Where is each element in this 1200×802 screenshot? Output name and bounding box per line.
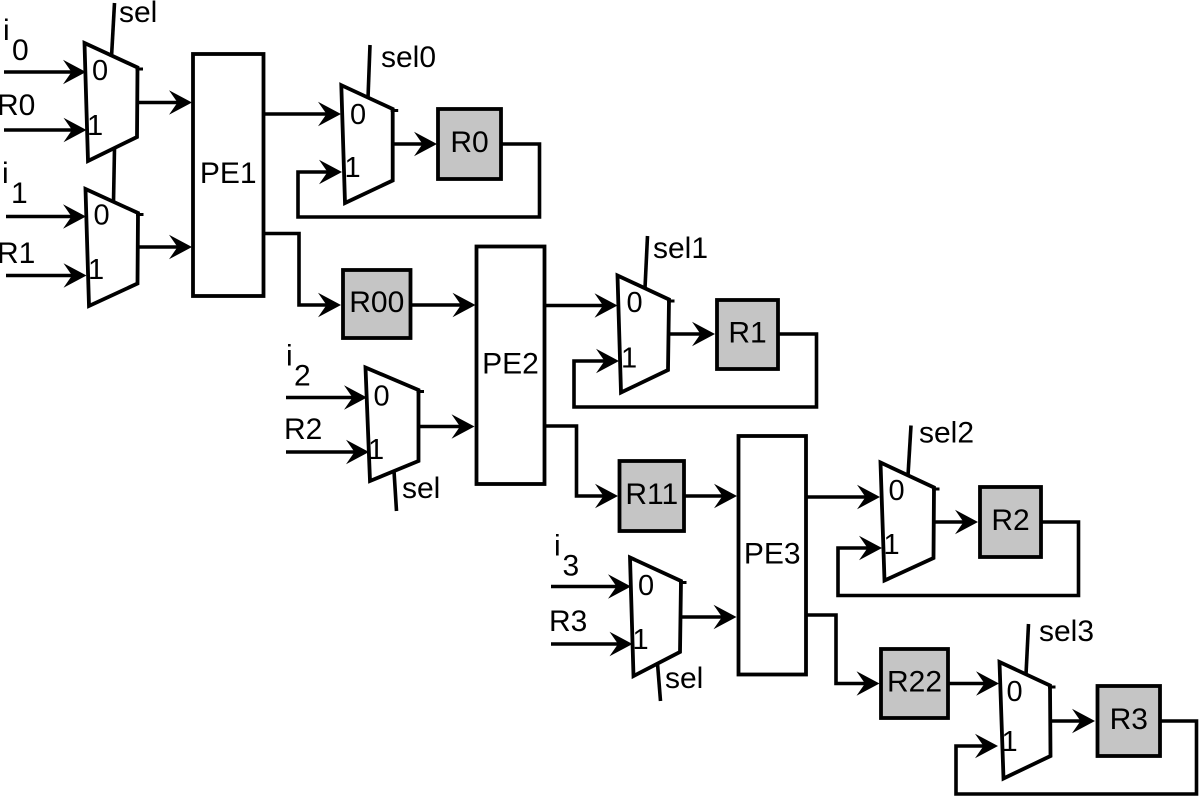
svg-text:sel3: sel3 [1039, 615, 1094, 648]
svg-text:sel0: sel0 [381, 41, 436, 74]
wire mux MF output to PE3 input [681, 605, 737, 630]
wire register R22 output to mux MH port 0 [948, 671, 999, 696]
mux MC (sel0) [341, 85, 398, 203]
wire sel into mux MD bottom [394, 471, 397, 511]
svg-text:0: 0 [889, 475, 905, 507]
wire register R11 output to PE3 input [684, 484, 737, 509]
svg-text:0: 0 [92, 55, 108, 87]
svg-text:R22: R22 [887, 666, 942, 699]
mux MA (selects i0 / R0) [85, 43, 144, 161]
wire PE3 output to mux MG port 0 [806, 485, 880, 510]
svg-text:1: 1 [88, 254, 104, 286]
wire sel into mux MF bottom [658, 664, 661, 702]
register R11 [620, 461, 685, 531]
svg-text:1: 1 [884, 529, 900, 561]
wire register R00 output to PE2 input [411, 293, 476, 318]
register R1 [717, 300, 778, 369]
register R0 [438, 109, 501, 179]
wire input R3 to mux MF port 1 [551, 632, 633, 657]
svg-text:R0: R0 [0, 89, 35, 122]
svg-text:R11: R11 [625, 478, 678, 511]
svg-text:sel2: sel2 [919, 417, 974, 450]
svg-text:0: 0 [627, 287, 643, 319]
wire mux ME output to register R1 [668, 322, 715, 347]
svg-text:sel1: sel1 [653, 232, 708, 265]
svg-text:R0: R0 [450, 126, 488, 159]
wire mux MA output to PE1 input [138, 90, 193, 115]
svg-text:R00: R00 [349, 286, 404, 319]
svg-text:1: 1 [621, 343, 637, 375]
wire input R0 to mux MA port 1 [4, 118, 87, 143]
wire mux MB output to PE1 input [138, 235, 192, 260]
wire input R2 to mux MD port 1 [286, 440, 369, 465]
svg-text:sel: sel [119, 0, 157, 29]
svg-text:PE1: PE1 [200, 157, 257, 190]
mux MH (sel3) [1000, 662, 1056, 779]
svg-text:0: 0 [638, 570, 654, 602]
wire mux MC output to register R0 [393, 132, 437, 157]
mux MF (selects i3 / R3) [630, 558, 687, 677]
wire PE1 output to mux MC port 0 [264, 102, 342, 127]
svg-text:i: i [286, 340, 293, 373]
wire input i2 to mux MD port 0 [286, 385, 367, 410]
svg-text:i: i [554, 530, 561, 563]
wire sel from mux MA bottom to mux MB top [114, 149, 115, 203]
wire register R1 feedback to mux ME port 1 [574, 334, 817, 407]
wire PE3 output to register R22 [806, 615, 880, 696]
svg-text:R2: R2 [991, 504, 1029, 537]
wire PE2 output to register R11 [545, 426, 619, 508]
svg-text:sel: sel [665, 662, 703, 695]
processing element PE2 [477, 247, 545, 485]
register R2 [980, 487, 1041, 557]
svg-text:R3: R3 [549, 605, 587, 638]
wire input i1 to mux MB port 0 [6, 204, 86, 229]
svg-text:1: 1 [633, 624, 649, 656]
svg-text:0: 0 [94, 200, 110, 232]
svg-text:1: 1 [345, 152, 361, 184]
svg-text:0: 0 [350, 99, 366, 131]
svg-text:R3: R3 [1110, 703, 1148, 736]
wire input i3 to mux MF port 0 [551, 574, 631, 599]
register R00 [343, 270, 411, 338]
wire register R2 feedback to mux MG port 1 [838, 522, 1079, 596]
wire mux MD output to PE2 input [419, 414, 475, 439]
svg-text:R1: R1 [0, 237, 35, 270]
processing element PE3 [739, 436, 807, 675]
svg-text:3: 3 [563, 550, 580, 583]
wire register R3 feedback to mux MH port 1 [956, 721, 1197, 794]
wire sel2 into mux MG top [908, 426, 911, 476]
svg-text:2: 2 [294, 360, 311, 393]
register R22 [881, 649, 948, 718]
svg-text:i: i [2, 157, 9, 190]
wire register R0 feedback to mux MC port 1 [298, 144, 540, 217]
svg-text:1: 1 [11, 177, 28, 210]
svg-text:1: 1 [1002, 726, 1018, 758]
wire PE1 output to register R00 [264, 234, 342, 318]
wire PE2 output to mux ME port 0 [545, 293, 618, 318]
svg-text:sel: sel [402, 472, 440, 505]
svg-text:0: 0 [12, 34, 29, 67]
register R3 [1098, 686, 1161, 756]
svg-text:R2: R2 [284, 413, 322, 446]
svg-text:0: 0 [1007, 676, 1023, 708]
wire sel into mux MA top [112, 3, 115, 57]
processing element PE1 [193, 54, 264, 296]
svg-text:1: 1 [368, 434, 384, 466]
wire sel0 into mux MC top [368, 45, 370, 98]
wire input R1 to mux MB port 1 [6, 263, 87, 288]
wire input i0 to mux MA port 0 [4, 60, 86, 85]
wire sel1 into mux ME top [645, 236, 648, 288]
mux ME (sel1) [618, 276, 675, 393]
svg-text:1: 1 [87, 110, 103, 142]
wire sel3 into mux MH top [1026, 624, 1029, 675]
svg-text:0: 0 [374, 381, 390, 413]
mux MD (selects i2 / R2) [366, 368, 425, 482]
svg-text:R1: R1 [728, 317, 766, 350]
svg-text:PE3: PE3 [744, 537, 801, 570]
svg-text:i: i [3, 14, 10, 47]
wire mux MH output to register R3 [1051, 709, 1096, 734]
wire mux MG output to register R2 [934, 510, 979, 535]
svg-text:PE2: PE2 [482, 347, 539, 380]
mux MB (selects i1 / R1) [86, 189, 144, 306]
mux MG (sel2) [881, 463, 940, 581]
